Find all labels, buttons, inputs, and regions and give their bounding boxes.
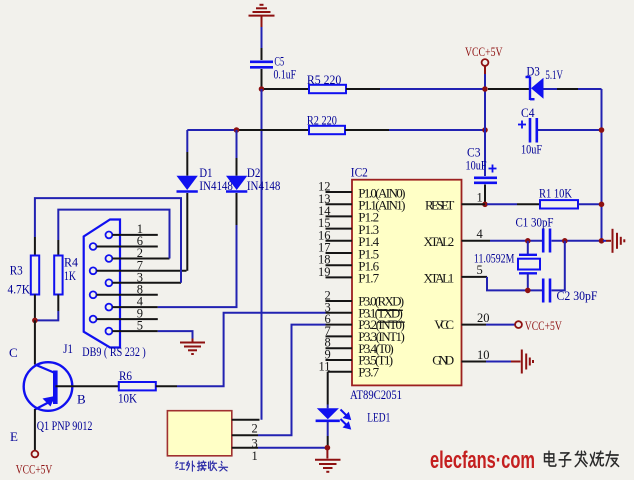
IC2 AT89C2051 box — [352, 180, 462, 386]
svg-text:C: C — [9, 345, 18, 360]
svg-text:VCC: VCC — [434, 317, 454, 332]
svg-text:1K: 1K — [64, 268, 76, 283]
svg-text:P3.7: P3.7 — [358, 364, 379, 379]
node R1 right — [599, 202, 605, 208]
svg-text:C4: C4 — [521, 105, 535, 120]
capacitor C2 — [543, 279, 550, 303]
node R3/R4 collector — [32, 318, 38, 324]
svg-text:0.1uF: 0.1uF — [274, 67, 297, 82]
svg-text:XTAL1: XTAL1 — [424, 271, 455, 286]
pin 5 XTAL1 stub — [462, 276, 488, 278]
svg-text:10uF: 10uF — [466, 158, 487, 173]
svg-text:4.7K: 4.7K — [8, 282, 31, 297]
transistor Q1 PNP 9012 — [24, 362, 73, 411]
wire R5 to VCC node — [380, 88, 485, 90]
svg-text:DB9 ( RS 232 ): DB9 ( RS 232 ) — [82, 344, 146, 359]
svg-text:LED1: LED1 — [367, 410, 390, 425]
svg-text:4: 4 — [477, 227, 484, 241]
ground top earth symbol — [249, 5, 275, 28]
wire XTAL1 down and right — [487, 277, 542, 291]
svg-text:R1 10K: R1 10K — [539, 186, 572, 201]
wire R2 to VCC node — [389, 129, 485, 131]
pin 1 RESET stub — [462, 203, 486, 205]
pin C3 bottom — [484, 185, 486, 205]
capacitor C1 — [543, 229, 550, 253]
IC2 pin names — [358, 185, 405, 379]
wire IR3 to P3.2 — [258, 325, 326, 436]
ground LED bottom — [315, 448, 341, 472]
wire GND pin — [486, 361, 511, 363]
svg-text:E: E — [10, 429, 18, 444]
wire ground to C5 — [261, 27, 263, 48]
svg-text:C1 30pF: C1 30pF — [516, 215, 554, 230]
svg-text:10uF: 10uF — [521, 142, 542, 157]
svg-text:5: 5 — [137, 319, 143, 333]
svg-text:19: 19 — [318, 265, 331, 279]
IR receiver box — [167, 411, 231, 456]
node C1 right — [562, 238, 568, 244]
pin 20 VCC stub — [462, 324, 487, 326]
resistor R6 — [119, 382, 156, 390]
svg-text:IN4148: IN4148 — [247, 178, 281, 193]
wire IR1 to LED node — [258, 447, 327, 449]
ground DB9 pin5 — [180, 339, 205, 355]
resistor R3 — [34, 237, 36, 256]
node crystal bottom — [525, 288, 531, 294]
diode D3 zener 5.1V — [488, 88, 529, 90]
IR pin 2 stub — [232, 419, 260, 421]
wire pin5 to ground — [158, 331, 193, 338]
svg-text:AT89C2051: AT89C2051 — [350, 387, 402, 402]
diode D1 IN4148 — [186, 130, 188, 152]
logo Chinese 电子发烧友 — [545, 451, 556, 466]
wire VCC pin to supply — [486, 324, 515, 326]
power VCC+5V bottom — [32, 451, 39, 458]
svg-text:D3: D3 — [527, 64, 540, 79]
resistor R4 — [54, 256, 62, 295]
svg-text:B: B — [77, 392, 86, 407]
svg-text:1: 1 — [477, 191, 483, 205]
resistor R1 — [540, 200, 578, 208]
node C5/R5 junction — [259, 86, 265, 92]
wire emitter down — [34, 409, 36, 451]
wire long vertical to IR pin2 — [261, 89, 263, 420]
wire VCC down — [484, 74, 486, 176]
overline TXD — [378, 309, 403, 311]
svg-text:R3: R3 — [10, 263, 23, 278]
svg-text:IC2: IC2 — [351, 165, 368, 180]
node ground right — [599, 238, 605, 244]
DB9 pin circles — [90, 232, 113, 335]
IC2 pin numbers left — [318, 180, 331, 374]
node RESET/C3/R1 — [482, 202, 488, 208]
svg-text:VCC+5V: VCC+5V — [16, 462, 53, 477]
pin C5 bottom — [261, 69, 263, 89]
pin 10 GND stub — [462, 361, 487, 363]
diode D2 IN4148 — [236, 130, 238, 158]
node LED/IR1/ground — [325, 445, 331, 451]
svg-text:11: 11 — [319, 359, 331, 373]
svg-text:10: 10 — [477, 348, 490, 362]
resistor R5 — [264, 88, 309, 90]
wire pin3 loop to R3 — [35, 198, 181, 283]
svg-text:5.1V: 5.1V — [545, 67, 563, 82]
wire right vertical — [601, 89, 603, 241]
node VCC/R2 — [482, 127, 488, 133]
wire collector — [34, 320, 36, 364]
wire D2 to DB9 pin4 — [158, 225, 237, 307]
pin 4 XTAL2 stub — [462, 240, 491, 242]
svg-text:J1: J1 — [63, 341, 73, 356]
node VCC/R5/D3 — [482, 86, 488, 92]
ground right sideways — [603, 240, 606, 242]
svg-text:VCC+5V: VCC+5V — [525, 318, 562, 333]
svg-text:R2 220: R2 220 — [307, 113, 337, 128]
svg-text:R5 220: R5 220 — [307, 72, 341, 87]
capacitor C5 — [250, 62, 273, 68]
svg-text:VCC+5V: VCC+5V — [465, 44, 503, 59]
svg-text:RESET: RESET — [425, 198, 454, 213]
LED1 — [317, 408, 339, 419]
svg-text:R6: R6 — [119, 368, 132, 383]
wire R6 to P3.1 — [177, 313, 326, 386]
LED1 arrows — [341, 410, 350, 429]
IR pin 1 stub — [232, 447, 258, 449]
node XTAL2/crystal — [525, 238, 531, 244]
node D2 anode on R2 line — [234, 127, 240, 133]
capacitor C4 — [530, 118, 537, 143]
DB9 pin stubs — [97, 235, 187, 331]
svg-text:GND: GND — [432, 353, 454, 368]
IR pin 3 stub — [232, 434, 258, 436]
svg-text:20: 20 — [477, 311, 490, 325]
wire P3.7 to LED1 — [327, 372, 329, 405]
DB9 pin numbers — [137, 222, 144, 333]
power VCC+5V right — [515, 321, 522, 328]
svg-text:XTAL2: XTAL2 — [424, 234, 455, 249]
IC2 left pin stubs P3.x — [326, 301, 353, 372]
node C4 right — [599, 127, 605, 133]
svg-text:5: 5 — [477, 263, 483, 277]
wire C2 right up to C1 right — [552, 241, 565, 291]
svg-text:Q1 PNP 9012: Q1 PNP 9012 — [37, 418, 93, 433]
ground pin10 sideways — [511, 350, 533, 374]
svg-text:10K: 10K — [118, 391, 138, 406]
wire XTAL2 row — [490, 240, 542, 242]
crystal Y1 11.0592M — [527, 241, 529, 254]
svg-text:2: 2 — [252, 422, 258, 436]
wire RESET to R1 — [487, 203, 517, 205]
svg-text:P1.7: P1.7 — [358, 271, 379, 286]
wire pin2 loop to R4 — [58, 210, 169, 259]
svg-text:1: 1 — [252, 449, 258, 463]
wire base to R6 — [56, 385, 119, 387]
connector J1 DB9 outline — [84, 220, 120, 348]
overline INT0 — [378, 321, 405, 323]
resistor R2 — [187, 129, 236, 131]
IC2 right labels — [424, 198, 455, 368]
capacitor C3 — [474, 178, 497, 183]
pin C5 top — [261, 48, 263, 60]
IC2 left pin stubs P1.0-P1.7 — [326, 192, 353, 277]
svg-text:elecfans·com: elecfans·com — [430, 447, 535, 474]
